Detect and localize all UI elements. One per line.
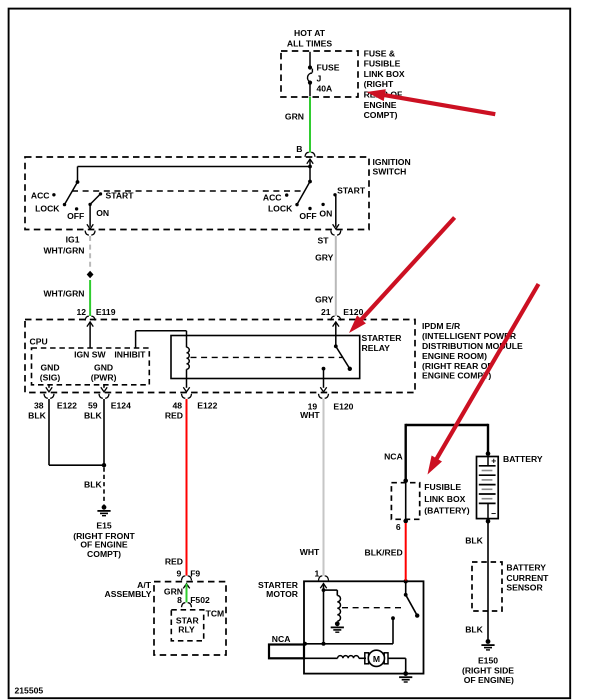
svg-text:LOCK: LOCK (35, 204, 60, 214)
wire CPU GND(SIG) to 38 (48, 384, 50, 386)
fusible link box (battery) (391, 478, 419, 523)
svg-text:E150: E150 (478, 656, 498, 666)
svg-text:E120: E120 (343, 307, 363, 317)
svg-text:1: 1 (315, 568, 320, 578)
wire BLK/RED fusible link to starter (364, 523, 405, 581)
wire E120 to relay contact (333, 322, 339, 347)
svg-text:F502: F502 (190, 595, 210, 605)
terminal IG1 (66, 224, 95, 244)
wire GRY ignition ST to E120 (315, 236, 336, 316)
wire BLK 59 (84, 399, 104, 465)
svg-text:WHT/GRN: WHT/GRN (43, 288, 84, 298)
svg-text:J: J (317, 73, 322, 83)
svg-text:E122: E122 (57, 400, 77, 410)
wire B feed into ignition switch (78, 159, 314, 182)
starter mechanical link (dashed) (342, 607, 405, 609)
svg-text:8: 8 (177, 595, 182, 605)
svg-text:LOCK: LOCK (268, 204, 293, 214)
svg-text:E124: E124 (111, 400, 131, 410)
wire E119 to CPU IGN SW (87, 322, 93, 348)
svg-text:(RIGHT SIDE: (RIGHT SIDE (462, 665, 514, 675)
svg-text:E122: E122 (197, 400, 217, 410)
wire WHT 19 to starter motor 1 (300, 399, 324, 576)
wire motor to ground (388, 658, 406, 673)
starter motor box (258, 580, 423, 674)
svg-text:CURRENT: CURRENT (506, 573, 549, 583)
svg-text:−: − (491, 509, 496, 519)
svg-text:GRY: GRY (315, 252, 334, 262)
wire WHT/GRN (dashed white segment) (43, 236, 90, 269)
label NCA (wire) (384, 452, 403, 462)
svg-text:OF ENGINE): OF ENGINE) (464, 675, 514, 685)
wire 1 into starter motor (320, 583, 326, 643)
svg-text:+: + (491, 455, 496, 465)
label IPDM E/R (INTELLIGENT POWER DISTRIBUTION MODULE ENGINE ROOM) (RIGHT REAR OF ENGINE COMPT) (422, 321, 523, 381)
svg-text:LINK BOX: LINK BOX (424, 494, 465, 504)
solenoid ground (331, 621, 344, 632)
svg-text:BLK: BLK (28, 411, 46, 421)
terminal ST (318, 224, 341, 245)
connector 1 (starter motor) (315, 568, 329, 580)
svg-text:WHT/GRN: WHT/GRN (43, 246, 84, 256)
pin 6 (396, 522, 401, 532)
svg-text:ENGINE ROOM): ENGINE ROOM) (422, 351, 487, 361)
relay switch contacts (322, 344, 352, 387)
svg-text:BLK: BLK (465, 625, 483, 635)
svg-text:E15: E15 (96, 520, 112, 530)
svg-text:IGN SW: IGN SW (74, 350, 106, 360)
wire GRN F9 to F502 (164, 584, 190, 603)
wire RED 48 to F9 (165, 399, 187, 576)
svg-text:DISTRIBUTION MODULE: DISTRIBUTION MODULE (422, 341, 523, 351)
svg-text:FUSIBLE: FUSIBLE (364, 59, 401, 69)
svg-text:215505: 215505 (15, 686, 44, 696)
svg-text:IG1: IG1 (66, 235, 80, 245)
svg-text:ACC: ACC (263, 193, 282, 203)
wire battery positive feed (heavy) (406, 424, 488, 481)
CPU box (30, 337, 150, 385)
motor ground (399, 671, 412, 682)
label HOT AT ALL TIMES (287, 28, 332, 48)
svg-text:WHT: WHT (300, 547, 320, 557)
svg-text:FUSE &: FUSE & (364, 48, 396, 58)
svg-text:GRY: GRY (315, 295, 334, 305)
wire NCA to switch contact (303, 642, 393, 646)
annotation arrow 3 (428, 284, 539, 475)
ignition switch pole 2 (ACC LOCK OFF ON START) (263, 180, 366, 227)
annotation arrow 1 (367, 89, 496, 114)
connector F9 pin 9 (177, 568, 201, 580)
motor M (365, 650, 388, 666)
svg-text:6: 6 (396, 522, 401, 532)
ignition switch pole 1 (ACC LOCK OFF ON START) (31, 180, 134, 227)
svg-text:COMPT): COMPT) (364, 110, 398, 120)
svg-text:FUSIBLE: FUSIBLE (424, 482, 461, 492)
svg-text:RED: RED (165, 557, 183, 567)
starter switch contacts (391, 579, 419, 644)
svg-text:NCA: NCA (384, 452, 403, 462)
TCM box (171, 609, 224, 641)
svg-text:9: 9 (177, 568, 182, 578)
relay mechanical link (dashed) (191, 356, 343, 358)
svg-text:21: 21 (321, 307, 331, 317)
svg-text:RELAY: RELAY (362, 343, 391, 353)
solenoid coil (324, 590, 341, 621)
node B connector (296, 144, 315, 157)
svg-text:BATTERY: BATTERY (506, 563, 546, 573)
svg-text:IPDM E/R: IPDM E/R (422, 321, 461, 331)
svg-text:OFF: OFF (299, 211, 316, 221)
svg-text:GND: GND (40, 363, 59, 373)
connector E120 pin 21 (321, 307, 364, 321)
svg-text:STARTER: STARTER (362, 333, 403, 343)
svg-text:GRN: GRN (285, 112, 304, 122)
ground E150 (481, 639, 494, 650)
svg-text:RLY: RLY (178, 625, 195, 635)
svg-text:SENSOR: SENSOR (506, 583, 543, 593)
terminal 19 E120 (308, 387, 354, 411)
svg-text:SWITCH: SWITCH (373, 167, 407, 177)
ignition switch box (25, 157, 411, 230)
mechanical link ignition switch (72, 190, 304, 192)
svg-text:MOTOR: MOTOR (266, 589, 299, 599)
svg-text:12: 12 (76, 307, 86, 317)
wire BLK sensor to ground E150 (465, 611, 488, 640)
svg-text:LINK BOX: LINK BOX (364, 69, 405, 79)
wire CPU INHIBIT to relay coil (136, 331, 187, 348)
svg-text:48: 48 (172, 400, 182, 410)
svg-text:HOT AT: HOT AT (294, 28, 326, 38)
svg-text:START: START (337, 186, 366, 196)
svg-text:M: M (373, 654, 380, 664)
svg-text:INHIBIT: INHIBIT (114, 350, 146, 360)
label FUSIBLE LINK BOX (BATTERY) (424, 482, 469, 516)
svg-text:TCM: TCM (206, 609, 225, 619)
annotation arrow 2 (349, 218, 455, 334)
wire WHT/GRN (green segment) (43, 280, 90, 316)
junction node (102, 463, 106, 467)
svg-text:59: 59 (88, 400, 98, 410)
wire GRN fuse to ignition switch (285, 97, 310, 153)
svg-text:CPU: CPU (30, 337, 48, 347)
connector F502 pin 8 (177, 595, 210, 607)
battery (477, 451, 499, 523)
battery current sensor box (472, 562, 502, 611)
NCA flag (269, 634, 304, 658)
label BATTERY CURRENT SENSOR (506, 563, 549, 593)
svg-text:BLK: BLK (465, 536, 483, 546)
terminal 38 E122 (34, 385, 77, 411)
svg-text:ST: ST (318, 236, 330, 246)
svg-text:E120: E120 (333, 401, 353, 411)
svg-text:BLK: BLK (84, 480, 102, 490)
relay coil (187, 347, 190, 369)
svg-text:FUSE: FUSE (317, 63, 340, 73)
label BATTERY (503, 454, 543, 464)
svg-text:F9: F9 (190, 568, 200, 578)
svg-text:BLK: BLK (84, 411, 102, 421)
svg-text:(BATTERY): (BATTERY) (424, 506, 469, 516)
svg-text:NCA: NCA (272, 634, 291, 644)
wire BLK to ground E15 (dashed) (84, 468, 104, 505)
svg-text:(RIGHT REAR OF: (RIGHT REAR OF (422, 361, 493, 371)
svg-text:ON: ON (96, 208, 109, 218)
svg-text:COMPT): COMPT) (87, 549, 121, 559)
svg-text:START: START (106, 191, 135, 201)
svg-text:WHT: WHT (300, 410, 320, 420)
svg-text:E119: E119 (96, 307, 116, 317)
svg-text:OFF: OFF (67, 211, 84, 221)
svg-text:38: 38 (34, 400, 44, 410)
svg-text:(PWR): (PWR) (91, 373, 117, 383)
connector E119 pin 12 (76, 307, 115, 321)
label STAR RLY (176, 616, 200, 635)
svg-text:40A: 40A (317, 83, 333, 93)
svg-text:ON: ON (319, 209, 332, 219)
starter relay box (171, 333, 402, 379)
terminal 48 E122 (172, 387, 217, 410)
svg-text:(RIGHT: (RIGHT (364, 79, 394, 89)
wire BLK 38 (28, 399, 104, 465)
terminal 59 E124 (88, 385, 131, 411)
A/T assembly box (105, 580, 226, 655)
svg-text:B: B (296, 144, 302, 154)
svg-text:RED: RED (165, 411, 183, 421)
wire relay coil to terminal 48 (186, 369, 188, 388)
fuse J 40A (308, 52, 340, 97)
armature inductor (304, 656, 366, 659)
svg-text:GND: GND (94, 363, 113, 373)
label E150 (RIGHT SIDE OF ENGINE) (462, 656, 514, 685)
svg-text:ENGINE: ENGINE (364, 100, 397, 110)
svg-text:ASSEMBLY: ASSEMBLY (105, 589, 152, 599)
IPDM E/R box (25, 320, 415, 393)
junction diamond (color change) (87, 271, 94, 278)
diagram number 215505 (15, 686, 44, 696)
svg-text:(INTELLIGENT POWER: (INTELLIGENT POWER (422, 331, 517, 341)
fuse box (dashed) fuse & fusible link box (281, 51, 358, 97)
svg-text:BLK/RED: BLK/RED (364, 548, 402, 558)
label FUSE & FUSIBLE LINK BOX (RIGHT REAR OF ENGINE COMPT) (364, 48, 405, 120)
svg-text:BATTERY: BATTERY (503, 454, 543, 464)
label E15 (RIGHT FRONT OF ENGINE COMPT) (73, 520, 135, 559)
svg-text:ALL TIMES: ALL TIMES (287, 38, 332, 48)
ground E15 (97, 505, 110, 516)
wire BLK battery to current sensor (465, 521, 488, 562)
svg-text:ACC: ACC (31, 191, 50, 201)
svg-text:(SIG): (SIG) (40, 373, 61, 383)
